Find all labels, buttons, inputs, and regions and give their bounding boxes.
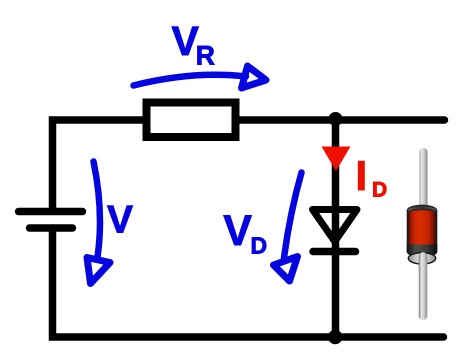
battery negative plate bbox=[30, 224, 73, 231]
svg-text:D: D bbox=[251, 233, 268, 259]
diode D anode triangle bbox=[313, 210, 358, 242]
svg-text:D: D bbox=[372, 179, 387, 202]
svg-text:R: R bbox=[196, 40, 215, 70]
photo diode body (red) bbox=[408, 206, 437, 257]
wire top rail: left vertical + top horizontal bbox=[53, 120, 445, 211]
VR arrowhead bbox=[242, 66, 267, 88]
svg-text:I: I bbox=[356, 152, 368, 199]
battery positive plate bbox=[19, 208, 83, 215]
svg-text:V: V bbox=[107, 199, 133, 242]
photo diode top lead bbox=[420, 152, 428, 206]
wire right vertical branch bbox=[332, 120, 340, 337]
VD arrowhead bbox=[274, 257, 298, 282]
node junction top bbox=[329, 112, 343, 126]
node junction bottom bbox=[328, 330, 342, 344]
VR arrow shaft bbox=[134, 75, 247, 86]
svg-text:V: V bbox=[223, 207, 252, 255]
photo diode cathode band bbox=[407, 245, 437, 257]
VD arrow shaft bbox=[284, 173, 302, 259]
photo diode bottom lead bbox=[419, 257, 428, 317]
wire bottom rail: left vertical lower + bottom horizontal bbox=[53, 228, 444, 337]
V source arrowhead bbox=[87, 258, 110, 284]
diode D cathode bar bbox=[313, 248, 356, 256]
resistor R bbox=[147, 103, 236, 138]
photo diode bottom cap bbox=[408, 253, 435, 264]
photo diode body outline bbox=[408, 206, 437, 257]
current direction arrow ID (red) bbox=[322, 147, 351, 172]
photo diode top rim bbox=[408, 206, 437, 213]
V source arrow shaft bbox=[94, 162, 100, 258]
